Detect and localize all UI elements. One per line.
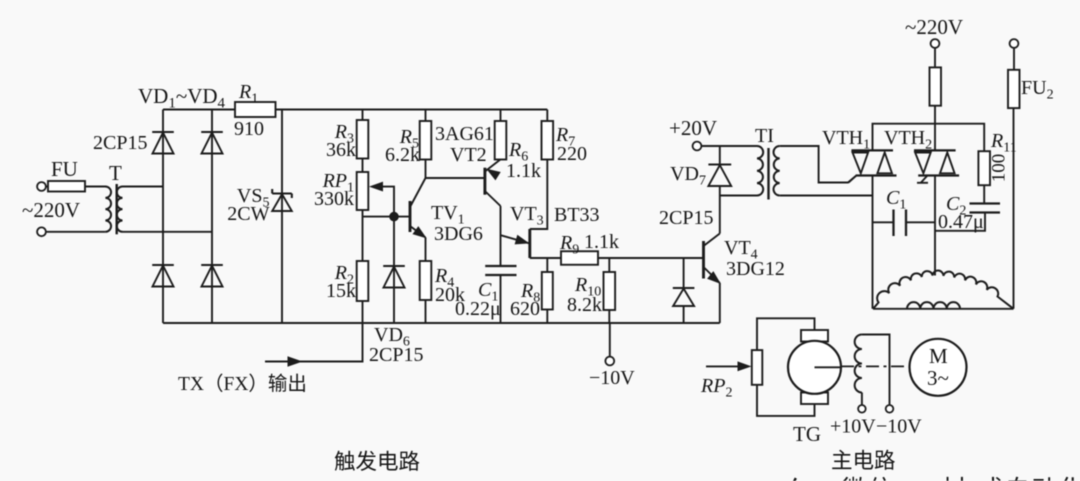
wire VS5 column: [281, 110, 283, 324]
unijunction transistor VT3 BT33: [528, 229, 531, 258]
potentiometer RP1: [357, 172, 369, 210]
svg-text:−10V: −10V: [589, 367, 635, 389]
diode VD7: [719, 146, 721, 165]
wire fuse to VTH2: [934, 106, 936, 151]
wire RP2 loop bottom: [757, 385, 815, 416]
fuse FU1 main: [934, 48, 936, 67]
svg-text:1.1k: 1.1k: [506, 160, 541, 182]
svg-text:3AG61: 3AG61: [435, 123, 494, 145]
transformer TI core: [767, 148, 769, 200]
wire R11 to C2: [983, 185, 985, 203]
node AC input terminal top: [37, 182, 46, 191]
capacitor C2 0.47u: [970, 202, 1001, 204]
svg-text:~220V: ~220V: [22, 198, 80, 222]
wire to -10V terminal: [609, 323, 611, 357]
wire R2 to bottom rail: [362, 301, 364, 323]
wire TX output: [265, 323, 363, 362]
svg-text:1.1k: 1.1k: [584, 231, 619, 253]
svg-text:0.22μ: 0.22μ: [455, 298, 501, 320]
node +10V terminal: [858, 405, 866, 413]
shaft line in TG: [815, 366, 842, 368]
svg-text:TI: TI: [755, 125, 774, 147]
capacitor C1 0.22u: [485, 265, 516, 267]
svg-text:M: M: [929, 344, 948, 368]
motor stator winding: [873, 308, 1014, 310]
transistor VT2 3AG61 PNP: [483, 168, 486, 195]
capacitor C1 snubber: [873, 221, 894, 223]
resistor R5: [425, 110, 427, 122]
transformer T secondary winding: [117, 187, 123, 232]
wire VTH2 anode column: [934, 176, 936, 276]
transformer T core: [115, 184, 117, 234]
wire top supply rail: [163, 109, 547, 111]
wire branch to VTH1: [873, 124, 936, 151]
svg-text:36k: 36k: [326, 139, 356, 161]
potentiometer RP2: [752, 350, 763, 385]
svg-text:2CP15: 2CP15: [659, 207, 713, 229]
svg-text:0.47μ: 0.47μ: [938, 211, 984, 233]
svg-text:主电路: 主电路: [831, 449, 896, 473]
wire coil bottom to +10V terminal: [861, 393, 863, 406]
svg-text:620: 620: [510, 298, 540, 320]
svg-text:3~: 3~: [927, 366, 949, 390]
transformer TI primary: [757, 146, 763, 196]
svg-text:3DG6: 3DG6: [434, 223, 483, 245]
svg-text:2CP15: 2CP15: [369, 344, 423, 366]
wire VD6 column: [393, 217, 395, 323]
node -10V terminal 2: [886, 405, 894, 413]
diode VD4: [201, 264, 223, 266]
wire R8 to bottom rail: [546, 310, 548, 324]
svg-text:15k: 15k: [326, 280, 356, 302]
svg-text:R9: R9: [559, 232, 579, 258]
triac VTH1: [851, 149, 893, 151]
wire RP2 loop top: [757, 318, 815, 350]
transistor VT4 3DG12: [702, 241, 705, 279]
svg-text:C1: C1: [886, 187, 906, 213]
wire R3 column top: [362, 110, 364, 121]
wire TI secondary bottom to VTH1 cathode: [780, 195, 873, 197]
wire R4 to bottom rail: [425, 300, 427, 323]
triac VTH2 gate: [921, 176, 927, 183]
svg-text:2CW: 2CW: [227, 203, 269, 225]
svg-text:8.2k: 8.2k: [567, 294, 602, 316]
wire FU2 to winding right corner: [1013, 108, 1015, 309]
wire diode column VT4 base: [683, 258, 685, 288]
diode VD3: [152, 264, 174, 266]
resistor R2: [357, 261, 369, 301]
fuse FU: [46, 186, 106, 188]
wire coil top to -10V terminal: [862, 335, 890, 405]
wire R9 right to R10 and VT4 base: [598, 257, 704, 259]
resistor R10: [608, 258, 610, 272]
diode VD6: [383, 265, 405, 267]
arrow RP2 wiper: [706, 365, 746, 367]
wire TI secondary top to VTH1 gate: [780, 146, 856, 183]
svg-text:100: 100: [989, 154, 1010, 183]
svg-text:6.2k: 6.2k: [385, 144, 420, 166]
svg-text:FU2: FU2: [1021, 77, 1054, 103]
wire branch to R11: [935, 124, 984, 152]
resistor R1: [235, 102, 276, 117]
transistor TV1 3DG6: [409, 201, 412, 232]
resistor R3: [357, 120, 369, 159]
node main AC terminal 2: [1010, 39, 1019, 48]
generator TG brush top: [801, 330, 828, 342]
node main AC terminal 1: [931, 39, 940, 48]
svg-text:TX（FX）输出: TX（FX）输出: [178, 373, 307, 395]
wire secondary bottom to bridge: [123, 231, 213, 233]
svg-text:VTH2: VTH2: [884, 127, 932, 153]
resistor R8: [546, 258, 548, 272]
svg-text:+10V: +10V: [830, 416, 876, 438]
wire R3 to RP1: [362, 159, 364, 173]
svg-text:220: 220: [557, 143, 587, 165]
fuse FU2: [1013, 48, 1015, 70]
svg-text:+20V: +20V: [669, 116, 717, 140]
node junction dot: [390, 212, 399, 221]
wire bridge right column: [211, 110, 213, 324]
svg-text:2CP15: 2CP15: [93, 132, 147, 154]
wire RP1 wiper: [372, 187, 394, 217]
wire VTH1 anode column: [872, 176, 874, 309]
svg-text:FU: FU: [51, 157, 78, 181]
inductor pickup coil: [855, 335, 862, 393]
motor winding bottom coil: [907, 302, 960, 309]
wire RP1 to R2: [362, 210, 364, 261]
wire secondary top to bridge: [123, 186, 164, 188]
svg-text:BT33: BT33: [554, 204, 600, 226]
svg-text:触发电路: 触发电路: [334, 450, 420, 474]
wire bridge left column: [162, 110, 164, 324]
triac VTH2: [914, 149, 956, 151]
svg-text:T: T: [109, 161, 122, 185]
transformer T primary winding: [104, 186, 107, 189]
wire C2 return to VTH2 column: [935, 213, 985, 231]
triac VTH1 gate: [849, 176, 857, 183]
svg-text:VD1~VD4: VD1~VD4: [138, 84, 226, 112]
resistor R4: [420, 261, 432, 300]
shaft dash-dot line: [841, 365, 911, 367]
svg-text:VTH1: VTH1: [822, 127, 870, 153]
wire +20V to TI primary: [701, 145, 757, 147]
svg-text:VT3: VT3: [510, 203, 544, 229]
diode VD1: [152, 131, 174, 133]
generator TG body: [788, 341, 841, 394]
transformer TI secondary: [774, 146, 780, 196]
zener diode VS5: [272, 192, 292, 194]
diode base clamp: [673, 287, 695, 289]
generator TG brush bottom: [801, 393, 828, 405]
node +20V terminal: [693, 142, 702, 151]
resistor R7: [546, 110, 548, 122]
wire TV1 collector to VT2 base: [426, 177, 485, 179]
wire R10 to bottom rail: [608, 310, 610, 323]
motor M 3~: [910, 339, 967, 396]
wire bottom rail: [163, 322, 720, 324]
svg-text:VD7: VD7: [670, 163, 706, 189]
svg-text:RP2: RP2: [700, 375, 732, 401]
resistor R9: [561, 251, 598, 265]
wire VD7 bottom to TI primary bottom: [720, 195, 757, 197]
wire base node to TV1: [363, 216, 411, 218]
svg-text:3DG12: 3DG12: [726, 258, 785, 280]
svg-text:〳⁓ 微信 ¹³ ·村·式自动化: 〳⁓ 微信 ¹³ ·村·式自动化: [779, 475, 1080, 481]
wire AC bottom to transformer: [46, 231, 105, 233]
svg-text:TG: TG: [793, 422, 821, 446]
diode VD2: [201, 131, 223, 133]
svg-text:910: 910: [234, 118, 264, 140]
resistor R6: [500, 110, 502, 122]
svg-text:R1: R1: [238, 81, 258, 107]
svg-text:−10V: −10V: [876, 416, 922, 438]
svg-text:VT2: VT2: [450, 144, 487, 166]
node AC input terminal bottom: [37, 227, 46, 236]
svg-text:330k: 330k: [314, 188, 354, 210]
svg-text:~220V: ~220V: [905, 15, 963, 39]
resistor R11: [978, 151, 990, 185]
